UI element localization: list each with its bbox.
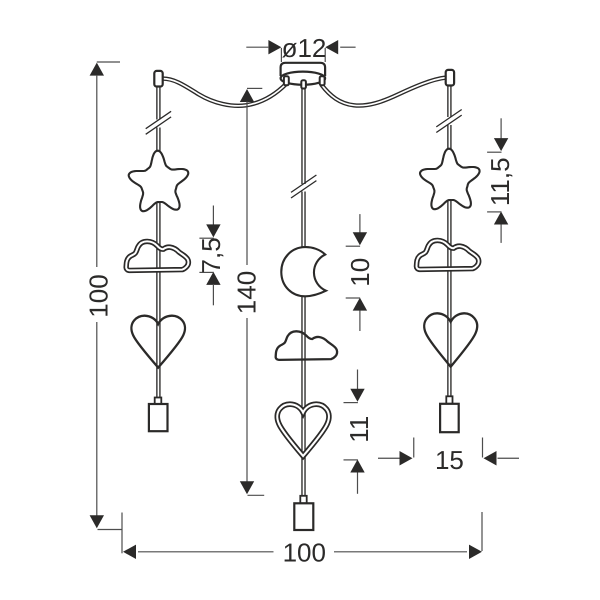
wire right strand upper segment bbox=[447, 85, 451, 117]
right star bbox=[420, 149, 480, 210]
svg-text:140: 140 bbox=[231, 271, 261, 314]
middle cloud bbox=[276, 331, 337, 360]
svg-text:7,5: 7,5 bbox=[196, 237, 226, 273]
wire middle strand lower segment bbox=[301, 192, 305, 497]
dimension 11 heart height bbox=[357, 370, 359, 390]
svg-text:10: 10 bbox=[345, 258, 375, 287]
middle heart (double outline) bbox=[277, 404, 329, 456]
right heart bbox=[424, 313, 477, 366]
break mark right strand bbox=[436, 110, 461, 127]
moon bbox=[281, 247, 326, 296]
dimension 100 left vertical bbox=[97, 61, 120, 63]
wire left strand upper segment bbox=[156, 86, 160, 120]
wire left strand lower segment bbox=[156, 128, 160, 399]
dimension 11,5 star height bbox=[500, 118, 502, 139]
svg-text:100: 100 bbox=[283, 538, 326, 568]
svg-text:11,5: 11,5 bbox=[485, 157, 515, 206]
canopy right cord grip bbox=[320, 76, 325, 85]
right cord hanger bbox=[446, 70, 454, 86]
right socket neck bbox=[446, 396, 452, 404]
break mark left strand bbox=[146, 111, 171, 128]
right socket bbox=[440, 404, 459, 432]
wire left curved cord from canopy to left hanger bbox=[163, 79, 287, 106]
right cloud (double outline) bbox=[416, 240, 478, 269]
wire right curved cord from canopy to right hanger bbox=[321, 78, 446, 106]
canopy left cord grip bbox=[284, 76, 289, 85]
dimension diameter 12 bbox=[246, 46, 268, 48]
svg-text:100: 100 bbox=[84, 274, 114, 317]
left socket neck bbox=[155, 398, 162, 405]
left socket bbox=[149, 404, 168, 431]
dimension 15 heart width bbox=[413, 438, 415, 458]
left cloud (double outline) bbox=[126, 241, 188, 270]
canopy body bbox=[281, 63, 326, 76]
left heart bbox=[131, 316, 185, 368]
break mark middle strand bbox=[291, 175, 316, 192]
svg-text:15: 15 bbox=[435, 445, 464, 475]
left star bbox=[129, 151, 189, 212]
canopy bottom rim ellipse bbox=[281, 72, 326, 85]
svg-text:11: 11 bbox=[344, 416, 374, 443]
wire right strand lower segment bbox=[447, 125, 451, 397]
svg-text:ø12: ø12 bbox=[282, 33, 327, 63]
dimension 7,5 cloud height bbox=[212, 206, 214, 227]
canopy middle cord grip bbox=[301, 80, 306, 88]
middle socket bbox=[294, 503, 313, 530]
dimension 10 moon height bbox=[359, 214, 361, 233]
wire middle strand upper segment bbox=[301, 88, 305, 184]
dimension 100 bottom bbox=[121, 513, 123, 554]
left cord hanger bbox=[154, 71, 162, 87]
middle socket neck bbox=[300, 496, 306, 504]
dimension 140 middle vertical bbox=[247, 87, 262, 89]
